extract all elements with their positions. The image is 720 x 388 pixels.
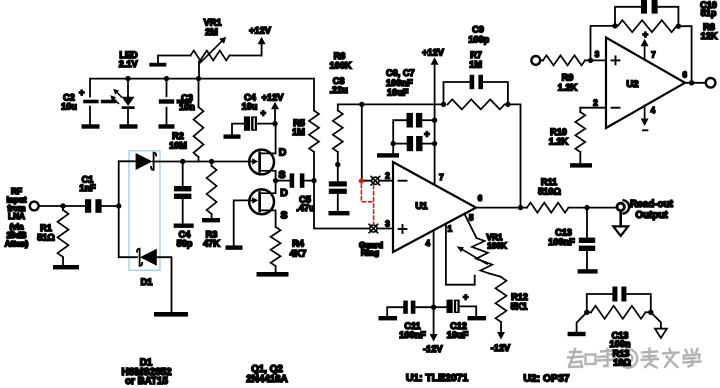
capacitor C1 (85, 199, 102, 213)
capacitor C2 (83, 100, 116, 104)
svg-text:6: 6 (478, 194, 483, 203)
svg-text:100n: 100n (610, 339, 631, 349)
svg-text:100K: 100K (487, 242, 507, 251)
wire VR1 2M left lead (158, 56, 191, 63)
wire to C13 (586, 208, 588, 238)
wire R13 to ground (577, 312, 587, 332)
svg-text:Atten): Atten) (5, 239, 29, 248)
svg-text:+12V: +12V (262, 92, 285, 102)
LED arrows (110, 89, 121, 104)
ground C11 (379, 316, 398, 320)
wire C13 to ground (586, 251, 588, 269)
guard via pin2 (371, 176, 380, 185)
svg-text:1nF: 1nF (79, 183, 96, 193)
wire VR1 2M wiper down (198, 62, 200, 79)
svg-text:51Ω: 51Ω (37, 232, 55, 242)
wire R13 to chassis (651, 312, 661, 328)
wire Q2 source to R4 (275, 210, 277, 227)
wire R3 to ground (211, 214, 213, 218)
chassis ground (bottom right) (655, 329, 667, 338)
power +12V arrow (Q1) (271, 102, 279, 124)
junction C7 right (432, 141, 437, 146)
resistor R9 (543, 55, 585, 65)
svg-text:-12V: -12V (491, 343, 511, 353)
svg-text:100K: 100K (330, 60, 352, 70)
svg-text:R11: R11 (541, 177, 557, 187)
svg-text:U1: TLE2071: U1: TLE2071 (406, 373, 469, 384)
potentiometer VR1 100K wiper arrow (457, 246, 487, 264)
svg-text:2M: 2M (205, 27, 218, 37)
watermark zhihu (568, 349, 701, 368)
wire R1 to ground (62, 257, 64, 265)
ground R3 (202, 218, 220, 222)
wire D1b anode to ground (157, 257, 172, 312)
wire C4 50p to ground (182, 199, 184, 223)
wire riser to R8 (591, 26, 616, 61)
junction R8 C10 left (612, 23, 617, 28)
svg-text:4K7: 4K7 (290, 249, 307, 259)
svg-text:Ring: Ring (361, 249, 379, 258)
svg-text:4: 4 (425, 239, 430, 248)
ground C4 50p (174, 224, 194, 228)
svg-text:2: 2 (385, 172, 390, 181)
svg-text:Output: Output (635, 210, 668, 221)
junction U2 output (689, 80, 694, 85)
ground C6 C7 (377, 153, 399, 157)
wire U1 output to R11 (476, 207, 527, 209)
wire U1 pin5 to pot (465, 214, 477, 238)
resistor R8 (618, 20, 677, 32)
op-amp U2 (606, 38, 685, 129)
junction R7 C9 left (441, 102, 446, 107)
wire C8 to ground (337, 194, 339, 211)
wire RF input to C1 (39, 205, 85, 207)
resistor R6 (333, 111, 343, 153)
svg-text:100p: 100p (468, 35, 489, 45)
svg-text:100nF: 100nF (548, 237, 575, 247)
svg-text:R10: R10 (550, 127, 567, 137)
wire C9 right lead (483, 82, 508, 104)
resistor R10 (575, 112, 585, 152)
wire C12 left lead (434, 306, 447, 308)
wire R6 top lead (338, 104, 362, 110)
wire top rail (90, 79, 314, 97)
capacitor C13 (bottom) (612, 287, 626, 302)
ground VR1 2M (149, 63, 166, 67)
junction C4 50p top (180, 159, 185, 164)
guard ring red dot (359, 178, 364, 183)
capacitor C9 (470, 75, 483, 89)
wire LED to ground (127, 109, 129, 124)
svg-text:10Ω: 10Ω (613, 358, 631, 368)
junction C13 top (584, 205, 589, 210)
ground R10 (570, 163, 592, 167)
capacitor C10 (641, 0, 658, 14)
svg-text:5: 5 (469, 214, 474, 223)
power -12V arrow (U1) (430, 307, 438, 341)
svg-text:10uF: 10uF (447, 330, 469, 340)
capacitor C3 (159, 99, 192, 103)
svg-text:10u: 10u (61, 102, 77, 112)
capacitor C7 (407, 136, 423, 151)
junction R13 left (584, 310, 589, 315)
svg-text:U2: OP37: U2: OP37 (523, 374, 569, 385)
wire U1 pin1 to pot (446, 223, 475, 284)
wire C11 left to ground (387, 307, 403, 316)
wire C1 to D1 node (102, 205, 119, 207)
resistor R12 (496, 277, 507, 322)
junction R13 right (648, 310, 653, 315)
svg-text:R9: R9 (562, 72, 574, 82)
svg-text:+: + (79, 88, 84, 98)
power +12V arrow (U1) (431, 57, 439, 185)
wire to R3 (211, 162, 213, 167)
wire R13 left stub (587, 311, 591, 313)
resistor R4 (271, 227, 281, 266)
svg-text:D: D (279, 147, 287, 159)
svg-text:R12: R12 (511, 292, 528, 302)
wire rail down to R5 (313, 79, 315, 111)
svg-text:R2: R2 (172, 131, 184, 141)
svg-text:10M: 10M (169, 141, 187, 151)
svg-text:6: 6 (682, 71, 687, 80)
junction R6-C8 (335, 162, 340, 167)
wire U2 pin2 (580, 107, 606, 109)
capacitor C8 (329, 181, 347, 194)
capacitor C13 (output) (579, 238, 595, 251)
svg-text:Read-out: Read-out (630, 199, 674, 210)
wire C6 C7 left riser (393, 120, 406, 153)
resistor R13 (591, 306, 646, 319)
guard ring dashed (361, 185, 373, 225)
junction C11 C12 (431, 305, 436, 310)
wire U1 pin4 down (433, 230, 435, 307)
ground C2 (82, 124, 100, 128)
wire R6 to C8 (337, 152, 339, 181)
svg-text:.47u: .47u (296, 203, 314, 213)
wire Q1 drain up (275, 124, 277, 154)
U2 pin7 supply arrow (641, 30, 649, 60)
svg-text:1.2K: 1.2K (558, 82, 578, 92)
diode D1b (bottom, schottky) (137, 249, 157, 266)
junction R7 C9 right (505, 102, 510, 107)
svg-text:5K1: 5K1 (511, 302, 528, 312)
diode D1a (top, schottky) (136, 153, 157, 170)
svg-text:510Ω: 510Ω (538, 186, 561, 196)
wire feedback rail (362, 103, 444, 105)
capacitor C6 (407, 113, 423, 128)
capacitor C4 10u (244, 116, 257, 130)
svg-text:100nF: 100nF (399, 330, 426, 340)
wire to C4 50p (182, 162, 184, 187)
junction R8 C10 right (676, 24, 681, 29)
RF input connector (30, 202, 39, 211)
svg-text:2: 2 (593, 99, 598, 108)
ground C13 (578, 269, 598, 273)
U2 output connector (706, 78, 716, 88)
resistor R5 (309, 111, 319, 153)
wire rail to C3 (166, 79, 168, 97)
ground C8 (329, 211, 350, 215)
wire node up to D1a anode (119, 161, 136, 206)
guard via pin3 (369, 224, 378, 233)
ground R13 (568, 332, 586, 336)
wire feedback riser to pin2 (361, 104, 363, 180)
wire rail to LED (127, 79, 129, 97)
wire C13b right lead (626, 294, 650, 312)
wire U2 output (685, 82, 706, 84)
wire R9 to U2 pin3 (585, 59, 606, 61)
svg-text:4: 4 (651, 106, 656, 115)
svg-text:D: D (280, 187, 288, 199)
wire R10 to ground (579, 152, 581, 163)
wire R5 to U1 +input (314, 152, 393, 229)
resistor R1 (58, 210, 69, 257)
ground C12 (468, 316, 487, 320)
ground R4 (257, 272, 289, 277)
wire C4 10u to node (258, 123, 275, 125)
wire C6 right lead (423, 119, 435, 121)
D1 guard box (129, 151, 160, 270)
svg-text:2N4416A: 2N4416A (246, 374, 287, 385)
wire C10 left lead (615, 7, 641, 26)
wire C7 left lead (393, 143, 407, 145)
svg-text:1.2K: 1.2K (549, 136, 569, 146)
svg-text:LNA: LNA (8, 212, 25, 221)
potentiometer VR1 2M (191, 51, 230, 61)
svg-text:C6, C7: C6, C7 (386, 68, 415, 78)
svg-text:12K: 12K (701, 31, 718, 41)
wire C12 right to ground (460, 306, 477, 316)
wire C13b left lead (587, 294, 613, 312)
wire to R10 (579, 108, 581, 112)
transistor Q1 (JFET) (249, 150, 275, 175)
svg-text:+: + (261, 108, 266, 118)
R9 input connector (531, 56, 540, 65)
ground C3 (159, 124, 175, 128)
wire detector output line (153, 161, 249, 163)
U2 pin4 supply arrow (641, 105, 649, 130)
wire C11 right lead (415, 306, 433, 308)
svg-text:C9: C9 (472, 24, 484, 34)
svg-text:7: 7 (439, 173, 444, 182)
junction LED top (125, 76, 130, 81)
svg-text:+: + (643, 30, 648, 40)
resistor R2 (194, 107, 204, 157)
junction R3 top (209, 159, 214, 164)
junction feedback tap (518, 205, 523, 210)
wire VR1 2M to +12V (230, 55, 262, 57)
svg-text:10u: 10u (242, 102, 258, 112)
wire C2 to ground (89, 107, 91, 125)
wire to R1 (62, 206, 64, 210)
svg-text:C13: C13 (555, 228, 572, 238)
svg-text:VR1: VR1 (204, 18, 222, 28)
potentiometer VR1 2M wiper arrow (201, 37, 227, 63)
junction C3 top (164, 76, 169, 81)
op-amp U1 (393, 162, 476, 252)
resistor R11 (527, 203, 569, 213)
read-out output jack (613, 200, 629, 236)
svg-text:+12V: +12V (422, 47, 445, 57)
wire node down to D1b cathode (119, 206, 137, 257)
wire connector to R9 (540, 59, 543, 61)
wire C10 right lead (658, 7, 679, 26)
svg-text:10uF: 10uF (387, 87, 409, 97)
svg-text:or BAT15: or BAT15 (125, 376, 168, 387)
wire Q2 gate to ground (234, 200, 250, 245)
svg-text:2.1V: 2.1V (119, 59, 139, 69)
svg-text:+: + (424, 129, 429, 139)
svg-text:D1: D1 (141, 277, 153, 287)
svg-text:-12V: -12V (423, 344, 443, 354)
resistor R7 (448, 99, 505, 109)
svg-text:U1: U1 (415, 201, 428, 212)
svg-text:3: 3 (385, 220, 390, 229)
transistor Q2 (JFET) (249, 189, 275, 214)
svg-text:47K: 47K (203, 239, 220, 249)
svg-text:.22u: .22u (330, 85, 348, 95)
svg-text:U2: U2 (626, 79, 638, 90)
svg-text:S: S (278, 169, 285, 181)
wire pot to R12 (490, 274, 502, 278)
ground LED (120, 124, 138, 128)
wire C4 10u left to ground (232, 124, 244, 135)
capacitor C5 (290, 173, 305, 187)
svg-text:10n: 10n (179, 102, 195, 112)
wire to C5 (276, 180, 290, 182)
svg-text:R4: R4 (292, 239, 305, 249)
junction Q1-Q2 / C5 (273, 178, 278, 183)
capacitor C12 (447, 300, 460, 313)
junction D1 input node (116, 203, 121, 208)
power +12V arrow (VR1) (258, 37, 266, 56)
junction R1 top (60, 203, 65, 208)
ground Q2 gate (226, 245, 243, 249)
ground D1 (154, 312, 188, 317)
wire C9 left lead (444, 82, 470, 104)
wire C3 to ground (166, 108, 168, 125)
wire R11 to output jack (569, 207, 617, 209)
wire C5 to R5 node (304, 180, 314, 182)
resistor R3 (207, 166, 217, 214)
wire R4 to ground (275, 266, 277, 272)
capacitor C11 (403, 301, 415, 314)
junction C5 / R5 line (311, 178, 316, 183)
junction Q1 drain supply (272, 121, 277, 126)
svg-text:50p: 50p (177, 239, 193, 249)
junction feedback rail left (359, 102, 364, 107)
svg-text:+: + (463, 292, 468, 302)
ground C4 10u (224, 134, 241, 138)
capacitor C4 50p (174, 186, 192, 199)
junction VR1 wiper / R2 (196, 76, 201, 81)
wire R13 right stub (646, 311, 651, 313)
junction C6 top right (432, 118, 437, 123)
svg-text:S: S (280, 210, 287, 222)
svg-text:1M: 1M (292, 127, 305, 137)
svg-text:1M: 1M (469, 59, 482, 69)
wire rail to R2 (198, 79, 200, 107)
svg-text:1: 1 (448, 225, 453, 234)
wire feedback to output (508, 104, 521, 207)
power -12V arrow (R12) (497, 322, 505, 340)
wire feedback to U2 output (678, 26, 691, 83)
svg-text:51p: 51p (701, 8, 717, 18)
potentiometer VR1 100K (472, 238, 492, 274)
wire Q1 source to Q2 drain (275, 171, 277, 193)
svg-text:+12V: +12V (249, 26, 272, 36)
wire C7 right lead (423, 143, 435, 145)
LED D (indicator) (122, 97, 135, 109)
svg-text:3: 3 (595, 50, 600, 59)
ground R1 (53, 265, 79, 269)
svg-text:7: 7 (651, 50, 656, 59)
junction R9 feedback (588, 58, 593, 63)
wire U1 pin2 input (362, 180, 393, 182)
wire R2 to detector node (198, 157, 200, 162)
junction C7 left (391, 141, 396, 146)
